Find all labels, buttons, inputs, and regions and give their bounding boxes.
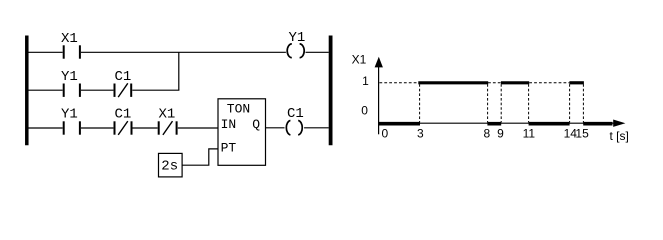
slash of NC contact C1 rung 3 [118, 121, 128, 135]
timing diagram Y axis (signal X1) [378, 60, 380, 134]
svg-text:0: 0 [361, 103, 368, 117]
right power rail [329, 36, 333, 146]
svg-text:C1: C1 [287, 106, 304, 122]
preset box 2s [159, 153, 183, 177]
wire coil C1 to right rail [304, 127, 329, 129]
contact X1 (NO) rung 1 [64, 45, 80, 58]
svg-text:C1: C1 [115, 69, 132, 85]
wire 2s box to PT pin [182, 149, 218, 165]
timer block U1 TON [218, 99, 266, 166]
rung 1 wire [29, 51, 329, 53]
rung 3 wire [29, 127, 219, 129]
svg-text:X1: X1 [61, 31, 78, 47]
svg-text:15: 15 [575, 126, 589, 140]
svg-text:Q: Q [252, 117, 260, 132]
rung 2 wire [29, 89, 180, 91]
X1 waveform low segments [379, 122, 613, 126]
svg-text:1: 1 [362, 74, 369, 88]
coil C1 [286, 120, 302, 134]
wire Q output to coil C1 [266, 127, 285, 129]
svg-text:PT: PT [221, 140, 237, 155]
slash of NC contact C1 rung 2 [118, 83, 128, 97]
svg-text:IN: IN [221, 117, 237, 132]
svg-text:Y1: Y1 [61, 107, 78, 123]
svg-text:11: 11 [523, 126, 536, 140]
contact Y1 (NO) rung 2 [64, 84, 80, 97]
svg-text:0: 0 [382, 126, 389, 140]
wire branch rung 2 to rung 1 [178, 52, 180, 90]
timing diagram X axis (time) [379, 122, 615, 124]
slash of NC contact X1 rung 3 [163, 121, 173, 135]
timing diagram X axis arrowhead [613, 120, 625, 127]
svg-text:8: 8 [483, 126, 490, 140]
contact C1 (NC) rung 2 [115, 84, 132, 97]
svg-text:3: 3 [417, 126, 424, 140]
dashed transition guides (t=3,8,9,11,14,15) [420, 84, 584, 122]
dashed level-1 guide segments [379, 82, 569, 84]
svg-text:9: 9 [497, 126, 504, 140]
svg-text:TON: TON [227, 101, 250, 116]
svg-text:X1: X1 [352, 53, 367, 67]
contact X1 (NC) rung 3 [159, 121, 177, 134]
X1 waveform high segments [418, 81, 584, 84]
contact Y1 (NO) rung 3 [64, 121, 80, 134]
svg-text:t [s]: t [s] [610, 129, 629, 143]
contact C1 (NC) rung 3 [115, 121, 132, 134]
timing diagram Y axis arrowhead [375, 57, 383, 68]
svg-text:X1: X1 [159, 107, 176, 123]
svg-text:Y1: Y1 [61, 69, 78, 85]
svg-text:2s: 2s [161, 159, 178, 175]
left power rail [25, 36, 29, 146]
coil Y1 [287, 44, 304, 58]
svg-text:Y1: Y1 [289, 30, 306, 46]
svg-text:C1: C1 [115, 107, 132, 123]
